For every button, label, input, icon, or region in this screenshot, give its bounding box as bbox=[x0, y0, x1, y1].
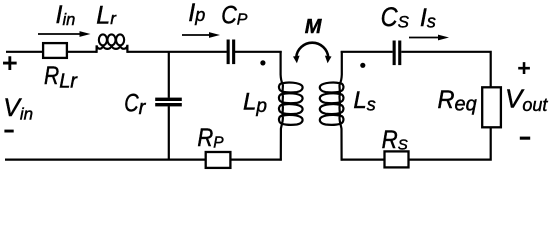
wire node A down to C_r bbox=[168, 52, 170, 98]
current arrow I_p bbox=[182, 32, 220, 38]
wire R_Lr to L_r bbox=[68, 51, 97, 53]
mutual inductance arrow M bbox=[293, 43, 332, 64]
wire secondary top to C_S bbox=[341, 51, 393, 53]
capacitor C_P bbox=[227, 40, 236, 65]
dot secondary polarity bbox=[360, 63, 365, 68]
svg-text:+: + bbox=[518, 55, 531, 80]
wire R_S to secondary bottom lead bbox=[341, 159, 384, 161]
wire C_S to output corner bbox=[401, 52, 490, 87]
capacitor C_S bbox=[393, 41, 402, 66]
resistor R_Lr bbox=[43, 43, 67, 58]
minus sign output bbox=[520, 137, 530, 140]
inductor L_p primary winding bbox=[279, 51, 303, 161]
minus sign input bbox=[4, 130, 13, 133]
inductor L_s secondary winding bbox=[320, 51, 344, 161]
current arrow I_in bbox=[38, 31, 91, 37]
wire C_P to primary corner bbox=[235, 51, 282, 53]
svg-text:M: M bbox=[305, 16, 323, 38]
wire input top lead bbox=[6, 51, 43, 53]
resistor R_S bbox=[385, 151, 409, 167]
resistor R_eq bbox=[482, 87, 501, 127]
wire R_eq to bottom rail corner bbox=[409, 128, 491, 160]
inductor L_r bbox=[97, 34, 128, 53]
wire L_r to node A and C_P bbox=[128, 51, 227, 53]
svg-text:+: + bbox=[2, 48, 17, 78]
wire bottom-left rail bbox=[5, 159, 206, 161]
wire C_r to bottom rail bbox=[168, 106, 170, 159]
resistor R_P bbox=[206, 152, 231, 168]
current arrow I_s bbox=[409, 35, 449, 41]
wire R_P to primary bottom lead bbox=[231, 159, 282, 161]
dot primary polarity bbox=[260, 60, 265, 65]
capacitor C_r bbox=[155, 98, 182, 107]
